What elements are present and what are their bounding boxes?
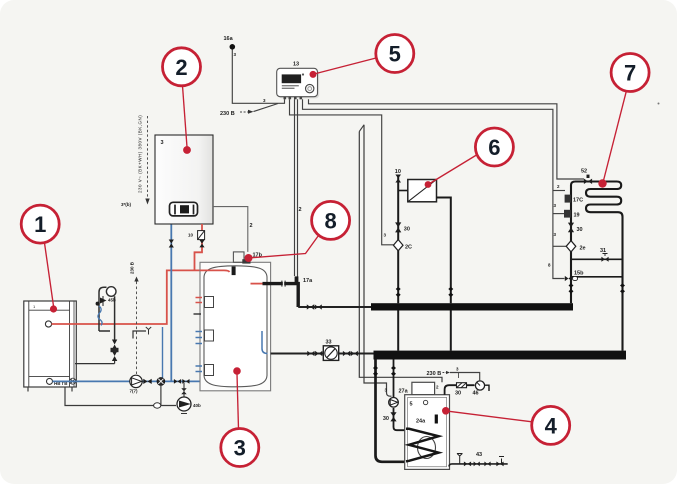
svg-text:40b: 40b: [193, 403, 201, 408]
segment between manifolds a: [397, 311, 399, 351]
coil inside tank: [418, 437, 436, 459]
svg-text:16a: 16a: [224, 36, 234, 42]
blue pipe boiler return: [170, 224, 172, 381]
valve d: [351, 351, 358, 356]
corner dot artifact: [658, 103, 660, 105]
svg-text:5: 5: [410, 402, 413, 408]
wire 16a to controller: [232, 50, 284, 104]
wire controller right upper: [309, 99, 585, 179]
drain tap 1: [457, 454, 463, 464]
valve e: [307, 351, 314, 356]
DHW feed pipe thick: [376, 360, 407, 462]
wire controller to 17a sensor: [297, 99, 299, 276]
buffer tank left ports: [205, 297, 214, 376]
sensor 16a: [224, 36, 237, 57]
valve a: [307, 304, 314, 309]
red pipe under boiler: [201, 224, 203, 250]
svg-text:15b: 15b: [574, 271, 584, 277]
callout circle 2: [163, 48, 201, 154]
mixing valve stack V1: [111, 340, 119, 362]
port 19: [564, 210, 571, 218]
svg-text:7(7): 7(7): [130, 389, 139, 394]
segment between manifolds b: [450, 311, 452, 351]
valve 2e: [566, 241, 576, 252]
buffer tank left red marks: [196, 298, 203, 303]
coil circuit riser (callout 7): [571, 182, 623, 351]
flow chevrons supply: [396, 287, 401, 297]
wire branch 19: [553, 213, 565, 215]
flow chevrons coil return: [620, 283, 625, 293]
arrow to pump: [134, 277, 138, 282]
svg-text:3*(b): 3*(b): [121, 202, 132, 207]
DHW pump line: [393, 360, 395, 398]
svg-text:7: 7: [624, 61, 636, 86]
red shutoff valve: [199, 240, 204, 248]
wire branch 17C: [553, 190, 565, 192]
callout circle 5: [310, 35, 414, 78]
valve 30 coil: [568, 223, 574, 233]
expansion loop pipe: [99, 287, 115, 339]
svg-text:2: 2: [175, 55, 187, 80]
svg-text:230 В: 230 В: [130, 261, 135, 274]
pump 27a: [385, 388, 409, 408]
pipe into tank coil: [394, 408, 407, 430]
tank T1 upper port: [45, 321, 51, 327]
flow chevrons DHW feed: [373, 366, 378, 376]
boiler power dashed lead: [147, 116, 149, 198]
valve 30 DHW: [383, 412, 397, 422]
pump P40b: [177, 383, 201, 414]
svg-text:30: 30: [577, 227, 583, 233]
valve 33: [323, 340, 338, 361]
boiler burner panel: [170, 202, 198, 216]
callout circle 7: [598, 54, 649, 188]
callout circle 3: [221, 367, 259, 466]
fitting 17b: [233, 252, 262, 264]
flow chevrons coil riser: [569, 283, 574, 293]
svg-text:10: 10: [188, 233, 194, 238]
lower manifold bar: [374, 351, 627, 360]
svg-text:3: 3: [161, 140, 164, 146]
pipe to upper manifold: [298, 306, 371, 308]
svg-text:230 В: 230 В: [220, 111, 235, 117]
callout circle 6: [425, 128, 514, 188]
wire controller right lower: [303, 99, 565, 278]
svg-text:8: 8: [324, 208, 336, 233]
wire boiler to 17b: [213, 207, 248, 252]
supply line with valve 2C: [393, 169, 412, 303]
thick pipe 17a from buffer: [263, 284, 299, 307]
red supply pipe tank1 to buffer top: [52, 249, 203, 324]
svg-text:31: 31: [600, 248, 606, 254]
svg-text:52: 52: [581, 169, 587, 175]
svg-text:10: 10: [395, 169, 401, 175]
tank T1 outlet union: [70, 378, 76, 384]
controller U13 (callout 5): [277, 62, 319, 100]
port 17C: [565, 195, 571, 203]
svg-text:2: 2: [250, 223, 253, 229]
mains arrow: [240, 111, 249, 113]
valve c: [343, 351, 350, 356]
svg-text:30: 30: [455, 391, 461, 397]
fill tap bracket: [133, 331, 146, 339]
valve f: [315, 351, 322, 356]
safety drain squiggle: [98, 306, 102, 326]
sensor wire pair b: [294, 99, 296, 276]
dashed mains wire to pump P7: [136, 282, 138, 375]
svg-text:45b: 45b: [108, 298, 116, 303]
svg-text:19: 19: [574, 213, 580, 219]
callout circle 8: [245, 201, 350, 262]
arrowhead down: [145, 199, 149, 205]
tank4 top outlet pipe: [445, 385, 475, 395]
pipe buffer to valve 33: [271, 353, 374, 355]
svg-text:230 В: 230 В: [427, 371, 442, 377]
callout circle 4: [442, 406, 570, 444]
union on 17a pipe: [282, 281, 285, 287]
junction mixing fitting: [157, 378, 165, 386]
pipe valve stack to tank: [75, 361, 115, 364]
air separator vessel: [106, 287, 116, 297]
flow chevrons HX6: [448, 287, 453, 297]
port stub 17a: [295, 276, 299, 283]
svg-text:2e: 2e: [580, 246, 586, 252]
svg-text:17a: 17a: [303, 278, 313, 284]
valve after pump: [143, 379, 151, 384]
drain tap 2: [499, 457, 504, 464]
svg-text:4: 4: [545, 413, 558, 438]
wire branch 2e: [553, 245, 567, 247]
tank4 drain line 43: [449, 464, 508, 467]
pipe 15b branch: [571, 276, 623, 278]
check valve 10: [188, 231, 205, 240]
svg-text:30: 30: [404, 227, 410, 233]
svg-text:27a: 27a: [399, 389, 409, 395]
HX6 outlet pipe: [437, 198, 451, 304]
svg-text:2: 2: [299, 207, 302, 213]
svg-text:6: 6: [488, 135, 500, 160]
DHW tank T4 (callout 4): [405, 382, 450, 469]
buffer internal blue pipe: [262, 331, 268, 354]
red pipe into buffer dome: [200, 270, 230, 272]
blue shutoff valve under boiler: [169, 240, 174, 248]
drain line riser: [160, 385, 162, 405]
svg-text:5: 5: [389, 42, 401, 67]
blue bottom main: [53, 380, 204, 382]
callout circle 1: [21, 205, 59, 313]
svg-text:17C: 17C: [573, 198, 583, 204]
valve b: [315, 304, 322, 309]
svg-text:30: 30: [383, 416, 389, 422]
svg-text:2C: 2C: [405, 245, 412, 251]
fitting 15b: [565, 271, 584, 282]
valve 31: [600, 248, 609, 262]
pump 46: [473, 381, 490, 397]
union oval: [154, 403, 161, 408]
red stub to 17a pipe: [251, 283, 264, 285]
wire branch to valve 2C: [290, 99, 394, 245]
upper manifold bar: [371, 303, 573, 310]
svg-text:13: 13: [293, 62, 299, 68]
svg-text:24a: 24a: [416, 419, 426, 425]
branch valve to pump P40b: [181, 388, 186, 394]
svg-text:33: 33: [326, 340, 332, 346]
drain line from tank1: [65, 387, 176, 406]
valve 52: [581, 169, 592, 185]
safety valve group: [96, 296, 116, 306]
pump P7: [130, 375, 143, 393]
wire to pump 46: [450, 373, 480, 381]
buffer tank left blue marks: [196, 332, 203, 372]
valve 30 outlet union: [455, 383, 467, 397]
tank T1 lower port: [47, 378, 53, 384]
riser pipe pair left: [359, 132, 442, 383]
riser mitre peak: [359, 125, 364, 132]
svg-text:230 V~ (BK+WH) 380V (BK,GN): 230 V~ (BK+WH) 380V (BK,GN): [138, 115, 143, 193]
tank T1 (storage tank, callout 1): [24, 301, 77, 392]
buffer tank left dark mark: [194, 313, 202, 315]
valve pair on blue main: [174, 379, 181, 384]
riser pipe pair right: [364, 125, 392, 396]
sensor well rod: [232, 267, 236, 276]
blue branch: [162, 327, 164, 381]
tap symbol: [146, 327, 151, 335]
heat exchanger HX6 (callout 6): [398, 180, 436, 202]
buffer tank BT (callout 3): [200, 262, 271, 391]
drain valves: [464, 462, 504, 467]
mains wire to controller: [254, 104, 279, 112]
flow chevrons DHW pump line: [391, 366, 396, 376]
svg-text:1: 1: [34, 212, 46, 237]
svg-text:3: 3: [234, 436, 246, 461]
valve 2 on blue main: [182, 379, 189, 384]
svg-text:43: 43: [476, 452, 482, 458]
svg-text:46: 46: [473, 391, 479, 397]
